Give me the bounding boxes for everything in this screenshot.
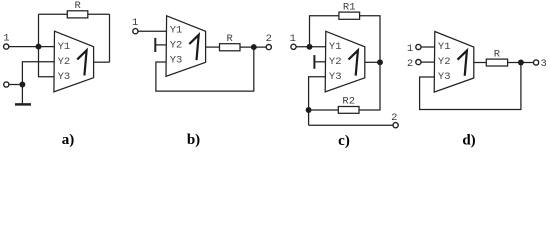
wire top left to resistor (a)	[39, 13, 68, 15]
junction node on Y1 wire (c)	[307, 44, 313, 50]
junction node output (c)	[377, 59, 383, 65]
junction node grounded (a)	[19, 82, 25, 88]
svg-text:Y3: Y3	[438, 71, 451, 83]
wire Y3 to feedback loop (b)	[156, 47, 254, 91]
wire bottom to terminal (c)	[309, 124, 393, 126]
hysteresis glyph (d)	[458, 51, 467, 76]
wire Y3 left and down (c)	[309, 77, 326, 125]
wire input 1 to Y1 (d)	[421, 46, 435, 48]
resistor R2 (c)	[338, 107, 359, 114]
junction node on Y1 wire (a)	[36, 44, 42, 50]
wire output to resistor (d)	[474, 62, 487, 64]
terminal 2 (output, c)	[393, 123, 398, 128]
wire input to Y1 (c)	[296, 46, 325, 48]
svg-text:3: 3	[541, 58, 547, 70]
svg-text:Y1: Y1	[170, 25, 183, 37]
resistor R (d)	[486, 59, 507, 66]
junction node output (b)	[251, 44, 257, 50]
svg-text:1: 1	[132, 17, 138, 29]
terminal 2 unlabeled (a)	[4, 82, 9, 87]
comparator U4 body (d)	[434, 32, 474, 93]
svg-text:1: 1	[290, 33, 296, 45]
comparator U2 body (b)	[166, 16, 206, 77]
svg-text:Y2: Y2	[58, 56, 71, 68]
svg-text:2: 2	[391, 112, 397, 124]
svg-text:R1: R1	[343, 1, 356, 13]
wire R1 to right corner and down (c)	[360, 16, 380, 63]
svg-text:Y3: Y3	[58, 71, 71, 83]
hysteresis glyph (a)	[77, 50, 86, 75]
svg-text:R2: R2	[342, 96, 355, 108]
open stub bar on Y2 (c)	[313, 55, 315, 69]
svg-text:Y3: Y3	[329, 71, 342, 83]
wire terminal to junction (a)	[9, 84, 22, 86]
junction node R2 tap (c)	[306, 107, 312, 113]
comparator U3 body (c)	[325, 31, 365, 92]
svg-text:Y1: Y1	[58, 41, 71, 53]
wire output to resistor (b)	[206, 46, 220, 48]
svg-text:Y2: Y2	[329, 56, 342, 68]
wire input to Y1 (a)	[9, 46, 54, 48]
wire input 2 to Y2 (d)	[421, 61, 435, 63]
resistor R (a)	[67, 11, 88, 18]
hysteresis glyph (c)	[349, 50, 358, 75]
junction node output (d)	[518, 60, 524, 66]
svg-text:2: 2	[407, 58, 413, 70]
wire junction to R2 (c)	[309, 109, 339, 111]
open stub bar on Y2 (b)	[154, 38, 156, 52]
svg-text:R: R	[494, 48, 501, 60]
resistor R1 (c)	[339, 12, 360, 19]
wire R2 up to output junction (c)	[359, 62, 380, 110]
wire junction down to Y3 (a)	[39, 47, 55, 77]
terminal 2 (output, b)	[266, 45, 271, 50]
wire stub to Y2 (c)	[314, 61, 325, 63]
wire resistor to terminal (b)	[240, 46, 266, 48]
wire junction up to Y2 (a)	[22, 62, 54, 85]
wire junction down to ground (a)	[21, 85, 23, 104]
svg-text:Y1: Y1	[438, 41, 451, 53]
svg-text:Y1: Y1	[329, 41, 342, 53]
terminal 3 (output, d)	[534, 60, 539, 65]
wire junction up to feedback (a)	[38, 14, 40, 46]
terminal 2 (input, d)	[416, 60, 421, 65]
svg-text:d): d)	[462, 132, 475, 148]
svg-text:Y3: Y3	[170, 55, 183, 67]
terminal 1 (input, a)	[4, 44, 9, 49]
terminal 1 (input, c)	[291, 44, 296, 49]
svg-text:2: 2	[266, 33, 272, 45]
ground (a)	[15, 103, 31, 106]
resistor R (b)	[220, 44, 241, 51]
svg-text:1: 1	[3, 33, 9, 45]
comparator U1 body (a)	[54, 31, 94, 92]
svg-text:a): a)	[62, 132, 75, 148]
hysteresis glyph (b)	[189, 35, 198, 60]
terminal 1 (input, d)	[416, 44, 421, 49]
wire feedback down (a)	[109, 14, 111, 62]
svg-text:R: R	[226, 33, 233, 45]
wire resistor to terminal 3 (d)	[508, 62, 534, 64]
wire resistor to right corner (a)	[88, 13, 110, 15]
terminal 1 (input, b)	[133, 29, 138, 34]
svg-text:Y2: Y2	[438, 56, 451, 68]
svg-text:1: 1	[407, 43, 413, 55]
svg-text:b): b)	[187, 132, 200, 148]
wire feedback to output (a)	[94, 61, 110, 63]
wire output to junction (c)	[365, 61, 380, 63]
wire input to Y1 (b)	[138, 30, 166, 32]
svg-text:c): c)	[338, 133, 350, 149]
wire stub to Y2 (b)	[155, 44, 166, 46]
svg-text:R: R	[74, 0, 81, 12]
svg-text:Y2: Y2	[170, 40, 183, 52]
wire Y3 feedback loop (d)	[420, 63, 521, 110]
wire junction up to R1 (c)	[310, 16, 339, 47]
